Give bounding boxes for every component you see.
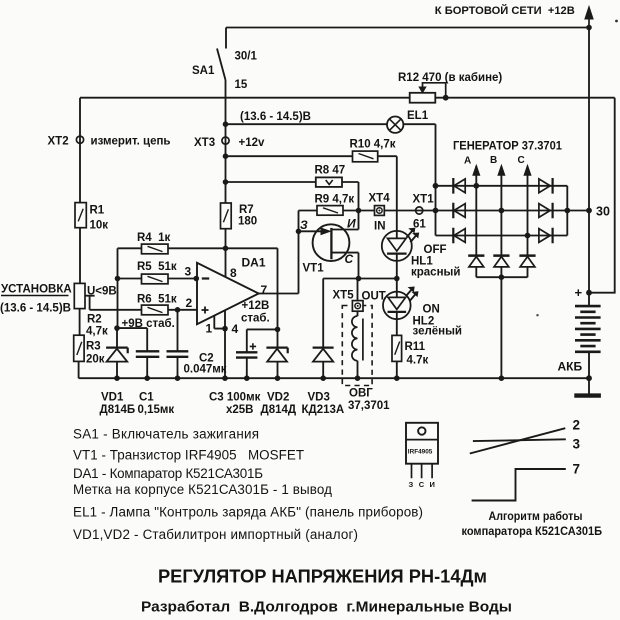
node rail battery <box>586 375 592 381</box>
transistor package IRF4905 <box>406 423 438 489</box>
svg-text:R5 51к: R5 51к <box>137 261 177 273</box>
svg-text:РЕГУЛЯТОР НАПРЯЖЕНИЯ РН-14Дм: РЕГУЛЯТОР НАПРЯЖЕНИЯ РН-14Дм <box>158 567 487 587</box>
capacitor C2 <box>167 351 189 357</box>
svg-text:SA1: SA1 <box>192 65 215 77</box>
resistor R4 <box>142 244 169 254</box>
wire left feedback bus <box>117 248 119 328</box>
svg-text:OUT: OUT <box>362 291 386 303</box>
resistor R10 <box>353 151 378 162</box>
node rail VD3 <box>320 375 326 381</box>
wire VT1 drain <box>331 253 358 279</box>
svg-text:ХТ3: ХТ3 <box>194 137 215 149</box>
svg-text:С: С <box>419 480 425 489</box>
terminal XT4 <box>375 206 385 216</box>
svg-text:VD1,VD2 - Стабилитрон импортны: VD1,VD2 - Стабилитрон импортный (аналог) <box>73 527 358 542</box>
svg-text:30: 30 <box>596 205 610 219</box>
node pin3 input <box>194 276 200 282</box>
comparator algorithm chart <box>470 428 566 500</box>
svg-text:ХТ2: ХТ2 <box>48 136 69 148</box>
svg-text:+9В стаб.: +9В стаб. <box>122 318 175 330</box>
svg-text:х25В: х25В <box>226 404 254 416</box>
relay coil OVG <box>352 316 363 361</box>
svg-text:10к: 10к <box>90 220 109 232</box>
transistor VT1 <box>313 224 350 261</box>
LED HL1 red <box>382 228 419 261</box>
wire 61 line to generator and 30 <box>359 210 590 212</box>
svg-text:стаб.: стаб. <box>241 313 270 325</box>
node rail pin4 <box>222 375 228 381</box>
node lower diodes B <box>499 274 505 280</box>
svg-text:компаратора К521СА301Б: компаратора К521СА301Б <box>462 526 603 538</box>
svg-text:SA1 - Включатель зажигания: SA1 - Включатель зажигания <box>73 427 259 442</box>
node battery plus <box>586 290 592 296</box>
wire generator row1 <box>436 185 568 187</box>
svg-text:61: 61 <box>413 219 426 231</box>
wire DA1 output to gate node <box>259 231 299 293</box>
wire drain node rail <box>323 278 397 280</box>
wire SA1 contact 15 down to XT3 column <box>225 80 227 124</box>
svg-text:2: 2 <box>186 296 193 310</box>
svg-text:R8 47: R8 47 <box>315 165 346 177</box>
wire R5 line to pin3 <box>118 278 198 280</box>
wire R2 wiper to R6 to pin2 <box>85 296 197 310</box>
svg-text:(13.6 - 14.5)В: (13.6 - 14.5)В <box>0 303 71 315</box>
svg-text:0,15мк: 0,15мк <box>138 404 175 416</box>
wire DA1 pin8 lead <box>225 248 227 277</box>
svg-text:R9 4,7к: R9 4,7к <box>315 194 355 206</box>
node pin1 pin4 <box>222 326 228 332</box>
zener VD1 <box>106 348 128 362</box>
svg-text:УСТАНОВКА: УСТАНОВКА <box>1 284 72 296</box>
node generator row1 left <box>433 183 439 189</box>
svg-text:+12В: +12В <box>242 300 270 312</box>
resistor R6 <box>142 305 169 315</box>
terminal XT1 <box>416 207 423 214</box>
node rail C2 <box>175 375 181 381</box>
wire battery bus <box>588 28 590 293</box>
svg-text:37,3701: 37,3701 <box>348 400 390 412</box>
node battery bus 30 <box>586 208 592 214</box>
node VT1 gate <box>296 229 302 235</box>
svg-text:ХТ1: ХТ1 <box>413 194 435 206</box>
svg-text:C3 100мк: C3 100мк <box>209 392 261 404</box>
generator rectifier left diodes <box>453 178 465 243</box>
wire DA1 pin1 <box>214 316 225 329</box>
node drain rail HL <box>394 276 400 282</box>
legend text block <box>73 427 423 542</box>
wire R9 leads <box>299 211 359 232</box>
terminal XT5 <box>352 301 363 312</box>
svg-text:R4 1к: R4 1к <box>137 232 170 244</box>
svg-text:IN: IN <box>374 221 386 233</box>
phase arrows A B C <box>473 165 531 175</box>
node R9 XT4 source <box>356 208 362 214</box>
svg-text:3: 3 <box>573 437 581 452</box>
resistor R1 <box>75 203 86 228</box>
svg-text:Д814Д: Д814Д <box>261 404 297 416</box>
svg-text:R1: R1 <box>90 205 105 217</box>
node left bus R5 <box>115 276 121 282</box>
svg-text:красный: красный <box>411 267 460 279</box>
svg-text:3: 3 <box>185 265 192 279</box>
svg-text:VD3: VD3 <box>308 392 330 404</box>
svg-text:R7: R7 <box>239 204 254 216</box>
node top rail / battery bus <box>586 25 592 31</box>
underline ustanovka <box>1 295 69 297</box>
capacitor C3 polarized <box>236 343 257 357</box>
resistor R11 <box>392 335 402 361</box>
battery AKB <box>575 306 601 352</box>
wire generator row3 <box>436 235 568 237</box>
wire VD1 leads <box>116 328 118 378</box>
svg-text:С: С <box>345 252 354 266</box>
wire EL1 down to terminal 61 bus <box>435 124 437 235</box>
generator lower diodes <box>468 256 535 267</box>
potentiometer R2 <box>74 283 85 308</box>
svg-text:Разработал В.Долгодров г.Мин: Разработал В.Долгодров г.Минеральные Вод… <box>141 600 512 616</box>
wire 13.6-14.5V line to EL1 and generator <box>226 123 436 125</box>
svg-text:VD1: VD1 <box>101 392 124 404</box>
svg-text:4,7к: 4,7к <box>86 326 108 338</box>
op-amp comparator DA1 <box>197 263 259 324</box>
svg-text:С: С <box>518 155 525 166</box>
svg-text:Алгоритм работы: Алгоритм работы <box>489 511 583 523</box>
svg-text:И: И <box>347 217 356 231</box>
svg-text:Д814Б: Д814Б <box>100 404 136 416</box>
svg-text:0.047мк: 0.047мк <box>184 364 227 376</box>
node right bus row2 <box>564 208 570 214</box>
switch SA1 blade <box>217 49 226 81</box>
svg-text:15: 15 <box>235 79 248 91</box>
svg-text:180: 180 <box>238 216 257 228</box>
node rail VD1 <box>114 375 120 381</box>
svg-text:А: А <box>464 156 471 167</box>
svg-text:VT1: VT1 <box>303 263 325 275</box>
wire battery leads and ground stem <box>588 293 590 394</box>
speck top right <box>615 20 618 23</box>
resistor R5 <box>142 274 169 284</box>
svg-text:7: 7 <box>573 462 581 477</box>
wire bottom common rail <box>79 377 589 379</box>
svg-text:К БОРТОВОЙ СЕТИ +12В: К БОРТОВОЙ СЕТИ +12В <box>435 4 575 17</box>
svg-text:DA1: DA1 <box>242 256 266 270</box>
relay field winding OVG dashed box <box>342 306 372 386</box>
svg-text:IRF4905: IRF4905 <box>408 449 433 456</box>
node phase A row1 <box>473 183 479 189</box>
svg-text:30/1: 30/1 <box>235 51 258 63</box>
wire VT1 source to R9 node <box>331 211 358 230</box>
svg-text:+12v: +12v <box>239 137 266 149</box>
svg-text:7: 7 <box>261 283 268 297</box>
svg-text:ON: ON <box>423 304 440 316</box>
wire right edge bus down <box>589 98 615 293</box>
node +12v branch <box>223 153 229 159</box>
wire HL2 column <box>396 279 398 379</box>
svg-text:ГЕНЕРАТОР 37.3701: ГЕНЕРАТОР 37.3701 <box>453 139 562 153</box>
svg-text:ХТ4: ХТ4 <box>369 193 391 205</box>
node rail C1 <box>144 375 150 381</box>
node phase C row3 <box>525 233 531 239</box>
node rail VD2 <box>275 375 281 381</box>
chart line 2 <box>470 428 566 453</box>
svg-text:зелёный: зелёный <box>413 326 463 338</box>
lamp EL1 <box>387 117 403 133</box>
svg-text:1: 1 <box>206 322 213 336</box>
wire +12V rail through R12 <box>80 97 615 99</box>
wire R10 down to HL1 <box>396 156 398 278</box>
svg-text:З: З <box>409 480 414 489</box>
wire XT5 relay column <box>357 279 359 379</box>
wire +12v rail to R10 <box>226 155 397 157</box>
zener VD2 <box>266 348 287 362</box>
svg-text:EL1: EL1 <box>407 110 429 122</box>
svg-text:8: 8 <box>230 266 237 280</box>
svg-text:U<9В: U<9В <box>87 286 117 298</box>
wire top rail to battery arrow <box>226 27 589 29</box>
node drain rail left <box>356 276 362 282</box>
resistor R7 <box>221 203 232 229</box>
svg-text:R10 4,7к: R10 4,7к <box>350 139 396 151</box>
terminal XT3 <box>222 137 229 144</box>
svg-text:R12 470 (в кабине): R12 470 (в кабине) <box>398 72 502 84</box>
arrow to on-board network <box>585 7 593 28</box>
svg-text:измерит. цепь: измерит. цепь <box>91 136 171 148</box>
svg-text:R2: R2 <box>87 314 102 326</box>
wire XT3 column <box>225 124 227 249</box>
svg-text:4.7к: 4.7к <box>407 355 429 367</box>
svg-text:R11: R11 <box>405 341 426 353</box>
chart step line 7 <box>472 469 566 501</box>
svg-text:EL1 - Лампа "Контроль заряда А: EL1 - Лампа "Контроль заряда АКБ" (панел… <box>73 505 423 520</box>
wire left XT2 column <box>79 98 80 379</box>
svg-text:(13.6 - 14.5)В: (13.6 - 14.5)В <box>240 111 311 123</box>
wire phase A <box>475 166 477 277</box>
svg-text:DA1 - Компаратор К521СА301Б: DA1 - Компаратор К521СА301Б <box>73 466 263 481</box>
node generator bus 61 <box>433 208 439 214</box>
svg-text:2: 2 <box>573 418 581 433</box>
node C2 tap <box>175 307 181 313</box>
potentiometer R12 <box>410 83 446 103</box>
wire SA1 upper stub <box>225 28 227 49</box>
wire R8 branch <box>226 182 359 211</box>
svg-text:C1: C1 <box>139 392 154 404</box>
svg-text:ОВГ: ОВГ <box>349 388 373 400</box>
node R8 branch <box>223 179 229 185</box>
wire C3 leads <box>247 329 278 378</box>
node rail R11 <box>394 375 400 381</box>
resistor R8 <box>316 177 342 187</box>
wire generator right bus <box>566 186 568 236</box>
node rail C3 <box>244 375 250 381</box>
node phase B row2 <box>499 208 505 214</box>
wire phase B <box>500 166 502 378</box>
node +9V stab <box>114 325 120 331</box>
svg-text:КД213А: КД213А <box>302 404 345 416</box>
svg-text:R6 51к: R6 51к <box>137 294 177 306</box>
svg-text:ХТ5: ХТ5 <box>333 290 355 302</box>
svg-text:АКБ: АКБ <box>558 360 583 374</box>
node rail phase B <box>499 375 505 381</box>
svg-text:В: В <box>490 155 497 166</box>
svg-text:20к: 20к <box>86 354 105 366</box>
terminal XT2 <box>76 136 83 143</box>
node +12V stab <box>275 327 281 333</box>
wire lower diodes common <box>476 276 527 278</box>
wire VD3 column <box>322 279 324 379</box>
capacitor C1 <box>136 351 160 357</box>
node pin8 R7 R4 <box>223 246 229 252</box>
wire +9V stab node to C1 <box>117 328 147 378</box>
LED HL2 green <box>383 287 418 319</box>
svg-text:+: + <box>575 285 583 300</box>
wire R4 line <box>118 247 226 249</box>
svg-text:R3: R3 <box>86 341 101 353</box>
node rail OVG <box>355 375 361 381</box>
svg-text:Метка на корпусе К521СА301Б -: Метка на корпусе К521СА301Б - 1 вывод <box>73 482 332 497</box>
node 13.6V branch <box>223 121 229 127</box>
node R12 wiper tap <box>443 95 449 101</box>
ground symbol <box>574 393 601 397</box>
wire VD2 leads <box>277 329 279 378</box>
speck right middle <box>536 314 538 316</box>
wire DA1 pin4 to ground rail <box>224 310 226 378</box>
svg-text:З: З <box>300 218 308 232</box>
resistor R9 <box>317 206 343 216</box>
svg-text:И: И <box>430 480 435 489</box>
generator rectifier right diodes <box>539 178 553 243</box>
svg-text:4: 4 <box>232 322 239 336</box>
chart line 3 <box>473 439 566 441</box>
label R7 value <box>238 204 257 228</box>
resistor R3 <box>74 335 84 361</box>
svg-text:VD2: VD2 <box>267 392 289 404</box>
diode VD3 <box>313 348 334 362</box>
svg-text:VT1 - Транзистор IRF4905 MOS: VT1 - Транзистор IRF4905 MOSFET <box>73 448 304 463</box>
wire phase C <box>527 166 529 277</box>
wire C2 leads <box>177 310 179 378</box>
svg-text:OFF: OFF <box>424 244 447 256</box>
wire VT1 gate <box>299 230 323 232</box>
wire +12V stab branch to C3 VD2 <box>226 248 278 329</box>
